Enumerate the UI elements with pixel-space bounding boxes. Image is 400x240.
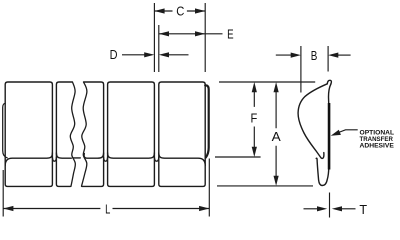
svg-text:A: A bbox=[272, 130, 282, 144]
dim B extension line right bbox=[327, 46, 329, 72]
dim T extension line bbox=[329, 193, 331, 218]
dim C line bbox=[154, 10, 205, 12]
dim D leader left bbox=[122, 54, 146, 56]
arrowhead L right bbox=[199, 206, 209, 211]
segment 4 fold line bbox=[159, 153, 205, 166]
arrowhead D right bbox=[159, 52, 169, 57]
dim L extension line right bbox=[208, 159, 210, 217]
dim B extension line left bbox=[300, 46, 302, 93]
segment 3 fold line bbox=[108, 153, 155, 158]
dim L extension line left bbox=[2, 170, 4, 217]
arrowhead B right bbox=[328, 53, 338, 58]
dim L line bbox=[3, 208, 209, 210]
finger segment 2 right fragment outline bbox=[82, 82, 104, 186]
arrowhead E right bbox=[195, 31, 205, 36]
A bottom extension line bbox=[217, 185, 313, 187]
finger segment 2 left fragment outline bbox=[56, 82, 72, 186]
arrowhead A down bbox=[274, 176, 279, 186]
arrowhead F down bbox=[252, 147, 257, 157]
dim D extension line bbox=[158, 25, 160, 72]
segment 2 left fragment fold line bbox=[56, 153, 71, 158]
dim B leader left bbox=[276, 54, 292, 56]
svg-text:E: E bbox=[227, 28, 234, 42]
arrowhead T left bbox=[317, 206, 327, 211]
slot bottom curl between segment 3 and 4 bbox=[154, 158, 158, 162]
break wavy line right bbox=[82, 82, 87, 186]
band top stub inside break bbox=[73, 157, 80, 159]
profile outer spring curve bbox=[298, 84, 327, 159]
svg-text:F: F bbox=[251, 112, 258, 126]
dim C extension line right bbox=[204, 3, 206, 72]
arrowhead D left bbox=[144, 52, 154, 57]
right end tab bbox=[205, 85, 209, 157]
adhesive leader line bbox=[339, 130, 358, 133]
slot bottom curl between segment 1 and 2 bbox=[52, 158, 56, 162]
F bottom extension line bbox=[215, 156, 261, 158]
adhesive strip (thick bar) bbox=[328, 103, 331, 170]
profile back line bbox=[329, 84, 331, 103]
dim A line bbox=[275, 91, 277, 177]
segment 2 right fragment fold line bbox=[84, 153, 104, 158]
arrowhead B left bbox=[291, 53, 301, 58]
svg-text:D: D bbox=[110, 48, 118, 62]
slot bottom curl between segment 2 and 3 bbox=[104, 158, 108, 162]
segment 1 fold line bbox=[5, 153, 52, 166]
arrowhead C right bbox=[195, 8, 205, 13]
dim F line bbox=[253, 91, 255, 148]
break wavy line left bbox=[70, 82, 75, 186]
dim E line bbox=[159, 33, 223, 35]
adhesive leader arrowhead bbox=[331, 130, 341, 136]
profile tip knob bbox=[327, 80, 331, 84]
dim T leader left bbox=[304, 208, 319, 210]
finger segment 3 outline bbox=[108, 82, 155, 186]
side profile view bbox=[298, 80, 331, 185]
arrowhead E left bbox=[159, 31, 169, 36]
svg-text:L: L bbox=[105, 202, 110, 216]
profile bottom hook bbox=[316, 158, 329, 185]
F/A top extension line bbox=[219, 81, 315, 83]
finger segment 4 outline bbox=[159, 82, 205, 186]
svg-text:ADHESIVE: ADHESIVE bbox=[360, 143, 395, 150]
left end tab bbox=[3, 103, 8, 158]
arrowhead L left bbox=[3, 206, 13, 211]
svg-text:B: B bbox=[311, 49, 318, 63]
dim D leader right bbox=[168, 54, 189, 56]
dim T leader right bbox=[341, 208, 356, 210]
dim C extension line left bbox=[153, 3, 155, 72]
dim B leader right bbox=[337, 54, 350, 56]
finger segment 1 outline bbox=[5, 82, 52, 186]
arrowhead F up bbox=[252, 82, 257, 92]
svg-text:C: C bbox=[176, 5, 184, 19]
arrowhead C left bbox=[154, 8, 164, 13]
arrowhead A up bbox=[274, 82, 279, 92]
arrowhead T right bbox=[332, 206, 342, 211]
svg-text:T: T bbox=[359, 203, 367, 217]
